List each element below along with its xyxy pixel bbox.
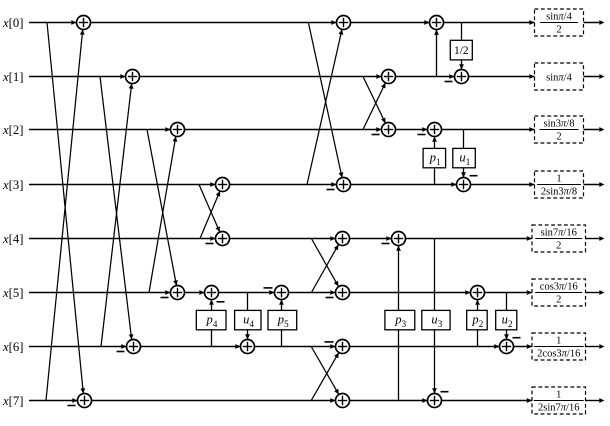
wire line3 branch up through p1 to line2 adder: [432, 137, 437, 185]
svg-text:3: 3: [438, 319, 443, 329]
adder S1 line0: [71, 16, 90, 30]
wire stage1 diagonal (100,76.5)->(132.5,346.5): [100, 77, 133, 340]
svg-text:u: u: [431, 313, 437, 327]
svg-text:sin3π/8: sin3π/8: [544, 119, 575, 130]
adder u4 line6: [235, 340, 254, 354]
svg-text:4: 4: [250, 319, 255, 329]
output box 1/(2sin3pi/8): [529, 171, 604, 198]
multiplier box p4: [196, 310, 226, 329]
wire stage1 diagonal (46,400.5)->(83.4,22.5): [46, 29, 85, 400]
svg-text:p: p: [277, 313, 284, 327]
multiplier box u4: [235, 310, 261, 329]
svg-text:5: 5: [284, 319, 289, 329]
adder S3 line5 (subtract): [326, 286, 350, 300]
svg-text:u: u: [502, 313, 508, 327]
svg-text:2sin3π/8: 2sin3π/8: [541, 187, 577, 198]
wire line x[3] horizontal: [29, 184, 535, 186]
adder p2 line5: [465, 286, 484, 300]
adder 1/2 line1 (subtract): [445, 70, 469, 84]
output box 1/(2cos3pi/16): [527, 333, 605, 360]
svg-text:2: 2: [556, 25, 561, 36]
wire stage2 diagonal line0->line3 adder: [308, 23, 343, 178]
svg-text:x[0]: x[0]: [2, 16, 23, 30]
svg-text:p: p: [394, 313, 401, 327]
output box cos(3pi/16)/2: [527, 279, 605, 306]
node x[3] label: [2, 178, 23, 192]
wire line2 branch down through u1 to line3 adder: [461, 130, 466, 178]
svg-text:1: 1: [466, 157, 471, 167]
wire line x[2] horizontal: [29, 129, 535, 131]
svg-text:u: u: [243, 313, 249, 327]
svg-text:2: 2: [508, 319, 513, 329]
output box sin(3pi/8)/2: [529, 116, 604, 143]
svg-text:2: 2: [556, 295, 561, 306]
svg-text:2: 2: [556, 241, 561, 252]
wire line0 branch down through 1/2 box to line1 adder: [459, 23, 464, 70]
wire stage3 diagonal line4->line5 adder: [311, 239, 338, 287]
wire stage2 diagonal line3->line0 adder: [307, 29, 343, 184]
adder S2 line2 (subtract): [372, 123, 396, 137]
wire line5 branch down through u2 to line6 adder: [504, 293, 509, 340]
wire line x[5] horizontal: [29, 292, 532, 294]
wire line6 branch up through p2 to line5 adder: [475, 300, 480, 347]
output box sin(pi/4)/2: [529, 9, 604, 36]
adder S2 line0: [331, 16, 350, 30]
multiplier box u3: [422, 310, 450, 329]
wire stage1 diagonal (147,129.5)->(177.8,292.5): [147, 130, 178, 286]
multiplier box p5: [268, 310, 297, 329]
wire line6 branch up through p5 to line5 adder: [279, 300, 284, 347]
svg-text:4: 4: [213, 319, 218, 329]
svg-text:x[2]: x[2]: [2, 123, 23, 137]
wire line x[0] horizontal: [29, 22, 535, 24]
multiplier box u1: [453, 148, 476, 167]
node x[7] label: [2, 394, 23, 408]
adder S2 line1: [376, 70, 395, 84]
wire line x[6] horizontal: [29, 346, 532, 348]
multiplier box p1: [423, 148, 446, 167]
wire stage1 diagonal (199,184.5)->(222.6,238.5): [199, 185, 220, 233]
output box sin(pi/4): [529, 63, 604, 90]
svg-text:2sin7π/16: 2sin7π/16: [538, 403, 579, 414]
adder S3 line4: [330, 232, 349, 246]
svg-text:sinπ/4: sinπ/4: [546, 12, 572, 23]
svg-text:x[3]: x[3]: [2, 178, 23, 192]
adder S1 line4 (subtract): [206, 232, 230, 246]
multiplier box u2: [496, 310, 517, 329]
wire line x[4] horizontal: [29, 238, 532, 240]
wire stage1 diagonal (101,346.5)->(132.5,76.5): [101, 83, 134, 346]
adder S1 line1: [120, 70, 139, 84]
svg-text:1/2: 1/2: [454, 45, 469, 57]
svg-text:2cos3π/16: 2cos3π/16: [537, 349, 580, 360]
adder S1 line3: [210, 178, 229, 192]
adder u1 line3 (subtract): [451, 176, 477, 192]
wire stage3 diagonal line7->line6 adder: [311, 353, 339, 401]
wire stage3 diagonal line5->line4 adder: [311, 245, 338, 293]
adder u2 line6 (subtract): [494, 338, 520, 354]
adder p4 line5: [199, 286, 224, 302]
adder S3 line6 (subtract): [325, 340, 350, 354]
adder u3 line7 (subtract): [422, 392, 448, 408]
svg-text:x[6]: x[6]: [2, 340, 23, 354]
svg-text:x[5]: x[5]: [2, 286, 23, 300]
adder S2 line3 (subtract): [327, 178, 351, 192]
svg-text:2: 2: [556, 132, 561, 143]
wire line x[1] horizontal: [29, 76, 535, 78]
svg-text:p: p: [429, 151, 436, 165]
adder p3 line4 (subtract): [382, 232, 406, 246]
wire line5 branch down through u4 to line6 adder: [245, 293, 250, 340]
wire stage1 diagonal (200,238.5)->(222.7,184.5): [200, 191, 220, 239]
svg-text:u: u: [459, 151, 465, 165]
node x[0] label: [2, 16, 23, 30]
svg-text:2: 2: [479, 319, 484, 329]
wire stage2 diagonal line1->line2 adder: [363, 77, 386, 124]
node x[4] label: [2, 232, 23, 246]
adder S1 line2: [165, 123, 184, 137]
svg-text:p: p: [206, 313, 213, 327]
wire stage1 diagonal (47,22.5)->(84,400.5): [47, 23, 85, 394]
wire stage3 diagonal line6->line7 adder: [311, 347, 339, 395]
svg-text:x[7]: x[7]: [2, 394, 23, 408]
svg-text:1: 1: [436, 157, 441, 167]
wire line x[7] horizontal: [29, 400, 532, 402]
svg-text:x[1]: x[1]: [2, 70, 23, 84]
multiplier box p3: [385, 310, 415, 329]
adder p5 line5: [264, 286, 289, 300]
svg-text:x[4]: x[4]: [2, 232, 23, 246]
svg-text:sin7π/16: sin7π/16: [541, 228, 577, 239]
node x[5] label: [2, 286, 23, 300]
svg-text:1: 1: [556, 390, 561, 401]
output box 1/(2sin7pi/16): [527, 387, 605, 414]
adder S3 line7: [330, 394, 349, 408]
svg-text:cos3π/16: cos3π/16: [540, 282, 578, 293]
adder S1 line5 (subtract): [161, 286, 185, 300]
wire line6 branch up through p4 to line5 adder: [209, 300, 214, 347]
wire stage1 diagonal (149,292.5)->(177,129.5): [149, 136, 177, 292]
multiplier box 1/2: [450, 40, 472, 60]
svg-text:sinπ/4: sinπ/4: [546, 72, 572, 83]
wire line4 branch down through u3 to line7 adder: [432, 239, 437, 394]
adder S1 line6 (subtract): [117, 340, 141, 354]
svg-text:1: 1: [556, 174, 561, 185]
output box sin(7pi/16)/2: [527, 225, 605, 252]
svg-text:3: 3: [402, 319, 407, 329]
node x[6] label: [2, 340, 23, 354]
node x[2] label: [2, 123, 23, 137]
adder S4 line0: [424, 16, 443, 30]
svg-text:1: 1: [556, 336, 561, 347]
multiplier box p2: [467, 310, 488, 329]
wire stage2 diagonal line2->line1 adder: [363, 83, 386, 130]
adder S1 line7 (subtract): [68, 394, 92, 408]
svg-text:p: p: [471, 313, 478, 327]
adder p1 line2 (subtract): [418, 123, 442, 137]
wire line1 branch up to line0 adder: [434, 30, 439, 77]
wire line7 branch up through p3 to line4 adder: [396, 246, 401, 401]
node x[1] label: [2, 70, 23, 84]
